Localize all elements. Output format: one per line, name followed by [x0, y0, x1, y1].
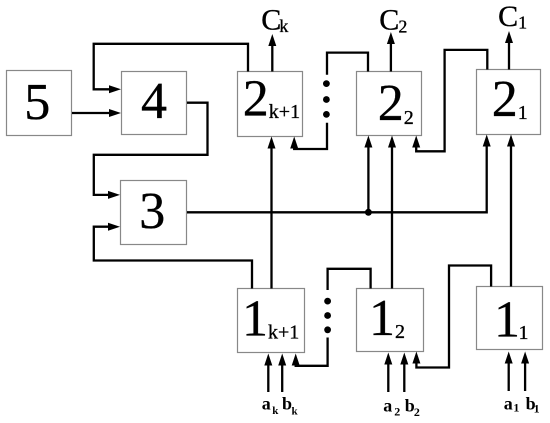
svg-text:4: 4 [141, 73, 167, 130]
wire carry 1 2 to 1 k+1 (lower part) [292, 338, 328, 366]
output arrow C 2 [387, 32, 395, 72]
block 5 [7, 71, 72, 136]
ellipsis dots between 2 2 and 2 k+1 [323, 80, 330, 118]
block 1 2 [357, 289, 424, 352]
block 4 [122, 72, 187, 135]
block 1 k+1 [238, 289, 305, 353]
wire carry 2 2 to 2 k+1 (lower part) [290, 123, 327, 149]
block 1 1 [477, 287, 543, 350]
input arrow b k [278, 354, 286, 393]
ellipsis dots between 1 2 and 1 k+1 [324, 298, 331, 333]
input arrow a 2 [384, 353, 392, 393]
wire carry 2 1 to 2 2 [412, 50, 487, 151]
wire feedback 2 k+1 to 4 [94, 44, 248, 94]
wire 1 k+1 to 3 [94, 223, 252, 289]
wire 5 to 4 [72, 109, 121, 117]
wire carry 1 2 to 1 k+1 (upper part) [328, 269, 371, 290]
block 3 [121, 181, 187, 245]
wire carry 1 1 to 1 2 [412, 266, 491, 368]
svg-text:5: 5 [24, 74, 50, 131]
output arrow C 1 [505, 31, 513, 70]
block 2 k+1 [238, 71, 303, 137]
block 2 1 [477, 70, 541, 135]
input arrow a k [264, 354, 272, 393]
input arrow b 2 [400, 353, 408, 393]
wire 3 to 2 1 (main line) [187, 135, 491, 213]
junction dot on main line [365, 209, 372, 216]
block 2 2 [357, 72, 422, 136]
wire branch junction to 2 2 [364, 136, 372, 213]
wire 1 1 to 2 1 [507, 135, 515, 287]
output arrow C k [268, 34, 276, 72]
input arrow b 1 [521, 352, 529, 392]
wire 4 to 3 [94, 103, 208, 199]
wire 1 k+1 to 2 k+1 [268, 137, 276, 289]
svg-text:3: 3 [139, 183, 165, 240]
wire 1 2 to 2 2 [388, 136, 396, 289]
wire carry 2 2 to 2 k+1 (upper part) [327, 53, 368, 75]
input arrow a 1 [505, 352, 513, 392]
